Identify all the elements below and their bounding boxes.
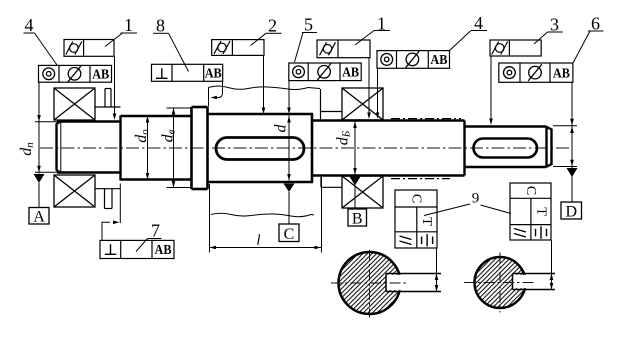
- symmetry symbol frame 9 left: [422, 234, 433, 247]
- tolerance frame 3 (cylindricity): [490, 40, 541, 56]
- svg-text:1: 1: [124, 15, 133, 35]
- svg-text:AB: AB: [155, 243, 172, 258]
- svg-text:C: C: [409, 194, 424, 203]
- shaft centerline: [40, 147, 572, 149]
- dimension l: [210, 247, 322, 249]
- svg-text:d: d: [273, 124, 290, 133]
- tolerance frame 6 (concentricity AB): [499, 63, 573, 82]
- top spacer ring at right bearing: [321, 89, 343, 120]
- datum D box: [561, 202, 582, 219]
- leader+dimension line d_p (frame 4 left / datum A axis): [38, 82, 40, 173]
- concentricity symbol frame 5: [293, 66, 305, 78]
- symmetry symbol frame 9 right: [536, 226, 547, 239]
- dimension d_B with datum B: [354, 122, 356, 175]
- leaders from frame 1 right and frame 4 right to bearing seat: [368, 58, 370, 117]
- leader from frame 5 to section d: [288, 81, 290, 112]
- bottom spacer ring at right bearing: [321, 176, 342, 187]
- tolerance frame 5 (concentricity AB): [289, 63, 361, 81]
- combined tolerance frame 9 left (parallelism/symmetry T C): [395, 190, 437, 248]
- left bearing top square: [54, 88, 95, 120]
- section 2 keyway slot lines: [513, 274, 556, 290]
- svg-text:AB: AB: [553, 66, 570, 81]
- svg-text:l: l: [256, 233, 260, 249]
- svg-text:T: T: [533, 207, 548, 216]
- datum C triangle: [284, 184, 295, 193]
- d_B (Б) section outline: [312, 121, 465, 176]
- right journal extension lines: [553, 125, 577, 127]
- svg-text:C: C: [284, 226, 295, 243]
- parallelism symbol frame 9 right: [514, 229, 526, 238]
- tolerance frame 1 left (cylindricity): [64, 40, 114, 57]
- svg-text:T: T: [419, 217, 434, 226]
- cross-section 2 hatched circle: [475, 257, 526, 308]
- tolerance frame 8 (perpendicularity AB): [152, 64, 223, 81]
- concentricity symbol frame 6: [504, 67, 516, 79]
- svg-text:AB: AB: [342, 66, 359, 81]
- diameter symbol frame 6: [528, 64, 542, 81]
- leader from frame 1 left to journal: [114, 56, 116, 118]
- svg-text:8: 8: [156, 16, 165, 36]
- keyway notch cut in section 1: [386, 275, 403, 290]
- concentricity symbol frame 4 right: [381, 54, 393, 66]
- leader frame 6 / dimension line of right journal with datum D: [571, 82, 573, 202]
- section 2 keyway depth dimension / leader from frame 9 right: [551, 240, 553, 290]
- shoulder face between journal and d_o section: [119, 116, 121, 181]
- cross-section 1 hatched circle: [339, 252, 401, 314]
- leader from frame 3 to right journal: [490, 56, 492, 123]
- svg-text:2: 2: [268, 16, 277, 36]
- bottom break wavy line: [211, 213, 314, 216]
- leader from frame 8 to collar face: [212, 81, 223, 97]
- right journal outline: [465, 127, 552, 168]
- datum A box: [29, 208, 49, 225]
- bottom circlip at left bearing: [95, 189, 121, 209]
- tolerance frame 1 right (cylindricity): [317, 40, 370, 58]
- tolerance frame 4 right (concentricity AB): [377, 51, 450, 69]
- cylindricity symbol frame 2: [214, 41, 230, 54]
- datum C box: [279, 224, 299, 242]
- top circlip at left bearing: [95, 89, 121, 108]
- parallelism symbol frame 9 left: [400, 236, 412, 245]
- svg-text:7: 7: [151, 221, 160, 241]
- right bearing top square: [342, 88, 383, 120]
- left journal (d_p): [57, 122, 122, 173]
- svg-text:A: A: [33, 209, 45, 226]
- concentricity symbol frame 4 left: [43, 68, 55, 80]
- datum D triangle: [567, 168, 578, 177]
- keyway notch cut in section 2: [513, 275, 528, 288]
- section 2 centerlines: [464, 282, 536, 284]
- svg-text:5: 5: [304, 15, 313, 35]
- svg-text:4: 4: [25, 15, 34, 35]
- perpendicularity symbol frame 7: [105, 244, 117, 254]
- left bearing bottom square: [54, 175, 95, 207]
- section 1 centerlines: [331, 282, 409, 284]
- svg-text:AB: AB: [205, 67, 222, 82]
- svg-text:C: C: [523, 186, 538, 195]
- section 1 keyway slot lines: [386, 274, 441, 292]
- d_p extension lines: [35, 121, 57, 123]
- svg-text:AB: AB: [430, 53, 447, 68]
- leader from frame 2 to section d: [263, 55, 265, 112]
- collar (shoulder d_B): [192, 107, 208, 189]
- right journal keyway slot: [474, 139, 538, 158]
- section 1 keyway depth dimension / leader from frame 9 left: [436, 248, 438, 292]
- datum B box: [348, 209, 367, 226]
- datum B triangle: [350, 177, 361, 186]
- svg-text:D: D: [566, 203, 578, 220]
- svg-text:AB: AB: [92, 68, 109, 83]
- keyway section (d) outline: [208, 114, 314, 182]
- tolerance frame 7 (perpendicularity AB): [100, 240, 174, 258]
- dimension d_v (collar): [167, 107, 193, 109]
- perpendicularity symbol frame 8: [156, 68, 168, 78]
- svg-text:B: B: [352, 210, 363, 227]
- tolerance frame 4 left (concentricity AB): [39, 65, 112, 82]
- middle keyway slot: [216, 138, 304, 160]
- dimension d (keyway section): [288, 116, 290, 181]
- cylindricity symbol frame 3: [492, 42, 508, 55]
- top break wavy line: [209, 86, 321, 90]
- cylindricity symbol in frame 1 left: [66, 42, 82, 55]
- combined tolerance frame 9 right (parallelism/symmetry T C): [510, 183, 551, 240]
- left journal chamfer line: [60, 122, 62, 172]
- diameter symbol frame 4 left: [68, 66, 82, 83]
- datum A triangle: [34, 174, 45, 183]
- diameter symbol frame 4 right: [406, 51, 420, 68]
- surface treatment dash-dot marks on d_B seat: [391, 118, 461, 120]
- d_o section outline: [121, 116, 192, 180]
- right bearing bottom square: [342, 176, 383, 208]
- dimension d_o: [147, 116, 149, 180]
- diameter symbol frame 5: [317, 64, 331, 81]
- tolerance frame 2 (cylindricity): [212, 40, 264, 56]
- collar face extension line: [208, 88, 210, 107]
- leader from frame 7 to shoulder face extension: [102, 222, 110, 240]
- svg-text:9: 9: [472, 191, 480, 207]
- cylindricity symbol frame 1 right: [320, 42, 336, 55]
